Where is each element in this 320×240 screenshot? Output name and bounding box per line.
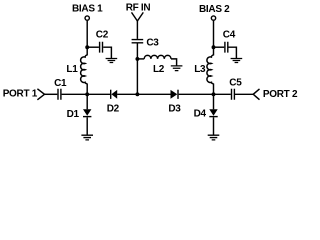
bias 1 terminal circle <box>85 16 89 20</box>
wire L3 to main line <box>213 84 215 110</box>
diode D1 cathode bar <box>83 116 91 118</box>
svg-text:C1: C1 <box>54 78 67 89</box>
diode D2 cathode bar <box>110 90 112 99</box>
inductor L2 <box>144 55 171 59</box>
junction node bias1/C2 <box>85 45 89 49</box>
svg-text:PORT 2: PORT 2 <box>263 89 298 100</box>
diode D3 cathode bar <box>177 90 179 99</box>
wire D2 to D3 through node B <box>117 93 171 95</box>
port 2 connector <box>253 89 259 100</box>
wire D3 to C5 through node C <box>179 93 231 95</box>
capacitor C1 plates <box>58 89 61 100</box>
RF IN antenna connector <box>132 12 144 21</box>
junction node C on main line <box>212 92 216 96</box>
svg-text:L3: L3 <box>194 64 206 75</box>
wire C1 to D2 through node A <box>62 93 111 95</box>
inductor L3 <box>207 55 214 84</box>
ground for C2 <box>106 59 118 63</box>
svg-text:BIAS 1: BIAS 1 <box>72 4 103 15</box>
diode D2 triangle <box>111 90 117 99</box>
junction node C3/L2 <box>135 57 139 61</box>
wire C4 lead from node <box>214 46 225 48</box>
ground for L2 <box>171 66 183 71</box>
wire bias1 terminal down to L1 <box>86 21 88 56</box>
svg-text:C2: C2 <box>96 30 109 41</box>
wire L2 to ground <box>171 59 177 66</box>
wire C2 to ground <box>103 47 111 58</box>
wire D1 cathode to ground <box>86 117 88 135</box>
wire C2 lead from node <box>87 46 99 48</box>
svg-text:D2: D2 <box>107 104 120 115</box>
svg-text:C4: C4 <box>223 29 236 40</box>
svg-text:L2: L2 <box>153 64 165 75</box>
svg-text:RF IN: RF IN <box>126 3 151 14</box>
svg-text:BIAS 2: BIAS 2 <box>199 4 230 15</box>
wire bias2 terminal down to L3 <box>213 21 215 56</box>
wire main line segment port1 to C1 <box>45 93 58 95</box>
port 1 connector <box>37 89 44 100</box>
diode D4 cathode bar <box>209 116 217 118</box>
svg-text:L1: L1 <box>66 64 78 75</box>
junction node A on main line <box>85 92 89 96</box>
wire RF IN stem to C3 <box>136 21 138 39</box>
diode D4 triangle <box>209 109 217 116</box>
wire C3 to main line <box>136 44 138 95</box>
wire D4 cathode to ground <box>213 117 215 135</box>
ground under D4 <box>208 135 220 140</box>
svg-text:D3: D3 <box>168 104 181 115</box>
bias 2 terminal circle <box>211 16 215 20</box>
wire C4 to ground <box>229 47 237 58</box>
capacitor C3 plates <box>132 40 144 43</box>
wire L2 lead from node B <box>137 58 144 60</box>
capacitor C2 plates <box>100 42 103 53</box>
capacitor C5 plates <box>232 89 235 100</box>
svg-text:C5: C5 <box>229 78 242 89</box>
diode D3 triangle <box>171 90 178 99</box>
ground for C4 <box>231 59 243 63</box>
svg-text:C3: C3 <box>146 37 159 48</box>
diode D1 triangle <box>83 109 91 116</box>
svg-text:D4: D4 <box>194 109 207 120</box>
junction node B on main line <box>135 92 139 96</box>
svg-text:PORT 1: PORT 1 <box>3 89 38 100</box>
ground under D1 <box>81 135 93 140</box>
svg-text:D1: D1 <box>67 109 80 120</box>
capacitor C4 plates <box>225 42 228 53</box>
junction node bias2/C4 <box>212 45 216 49</box>
wire L1 to main line <box>86 84 88 110</box>
wire C5 to port2 <box>235 93 253 95</box>
inductor L1 <box>81 55 88 84</box>
